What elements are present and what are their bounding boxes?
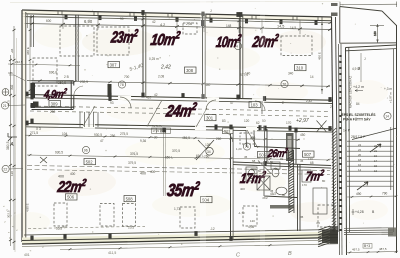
svg-text:-1,73: -1,73 [238, 211, 245, 215]
svg-text:7a 7b 7c: 7a 7b 7c [152, 124, 163, 128]
svg-text:308: 308 [186, 68, 194, 73]
svg-text:2,08: 2,08 [186, 22, 192, 26]
svg-text:497,5: 497,5 [352, 248, 360, 252]
svg-text:450 E: 450 E [318, 52, 322, 60]
svg-text:78: 78 [120, 83, 124, 87]
svg-text:4,80 E: 4,80 E [26, 203, 30, 212]
svg-text:22: 22 [3, 167, 7, 171]
svg-text:14,5: 14,5 [277, 25, 284, 29]
scan fog patches [10, 22, 388, 232]
svg-text:271,5: 271,5 [30, 131, 38, 135]
dark shaft [286, 133, 294, 161]
svg-text:400: 400 [240, 187, 245, 191]
svg-text:X 3: X 3 [36, 127, 41, 131]
partition top dark blob [201, 20, 205, 26]
tower mid dimension line [347, 192, 397, 199]
svg-text:B+3: B+3 [364, 244, 370, 248]
circle cross symbol left [2, 89, 9, 96]
svg-text:696,8: 696,8 [49, 71, 57, 75]
tower bottom band [344, 228, 397, 237]
svg-text:10,5: 10,5 [128, 226, 134, 230]
corridor door gaps [83, 98, 264, 129]
svg-text:14: 14 [358, 168, 362, 172]
svg-text:+30: +30 [152, 136, 158, 140]
svg-text:+,3 m: +,3 m [384, 87, 392, 91]
svg-text:2 B: 2 B [64, 75, 69, 79]
left wall inner dim marks [26, 16, 31, 94]
svg-text:42: 42 [154, 93, 158, 97]
box 503 on corridor wall [223, 128, 234, 134]
svg-text:83: 83 [222, 119, 226, 123]
svg-text:C: C [236, 253, 240, 258]
svg-text:260: 260 [216, 137, 222, 141]
svg-text:379,5: 379,5 [128, 161, 136, 165]
svg-text:456,5: 456,5 [182, 136, 190, 140]
svg-text:14,5: 14,5 [290, 26, 296, 30]
svg-text:307: 307 [110, 62, 118, 67]
shower with cross [257, 176, 270, 190]
circled 34 on X [206, 148, 214, 156]
svg-text:400: 400 [70, 172, 76, 176]
svg-text:-12: -12 [210, 227, 215, 231]
room area labels handwritten [42, 27, 325, 200]
svg-text:E: E [282, 101, 284, 105]
svg-text:18: 18 [358, 158, 362, 162]
top-right annex dimension [340, 2, 397, 43]
svg-text:+4,28: +4,28 [355, 210, 364, 214]
svg-text:506: 506 [67, 195, 75, 200]
corridor vestibule stubs [246, 101, 262, 147]
scan creases [200, 0, 206, 258]
partition wall 10/10 [203, 15, 206, 99]
dimension line second bottom rooms [27, 151, 330, 162]
x cross mark [40, 157, 47, 163]
svg-text:6,90: 6,90 [84, 19, 93, 24]
bath clutter numbers [236, 147, 326, 225]
bottom dimension lines outside [24, 243, 338, 258]
svg-text:507: 507 [304, 152, 312, 157]
svg-text:250,5: 250,5 [58, 81, 66, 85]
svg-text:790: 790 [382, 192, 388, 196]
svg-text:93: 93 [110, 101, 114, 105]
svg-text:14: 14 [310, 75, 314, 79]
section marker A left [8, 133, 17, 148]
top-right annex outline [340, 7, 397, 44]
svg-text:250: 250 [50, 110, 56, 114]
svg-text:80: 80 [322, 179, 326, 183]
svg-text:47: 47 [230, 101, 234, 105]
partition wall 22/35 [164, 131, 166, 196]
svg-text:148: 148 [226, 24, 232, 28]
door arcs corridor [83, 97, 265, 148]
main bottom-right dark corner [322, 226, 338, 244]
svg-text:9,36: 9,36 [140, 139, 146, 143]
corridor lower wall [26, 124, 332, 133]
svg-text:2,42: 2,42 [306, 99, 312, 103]
svg-text:400: 400 [150, 170, 156, 174]
left exterior wall [22, 10, 26, 242]
svg-text:4,08: 4,08 [248, 225, 254, 229]
alcove wall left of 23m2 [76, 15, 78, 81]
right gap verticals upper [338, 60, 340, 130]
furniture dashed rectangles top rooms [33, 23, 312, 86]
alcove pilaster [31, 15, 34, 47]
bathroom dividing walls [233, 129, 331, 231]
4,9m2 dark column [33, 102, 39, 108]
dimension line mid bottom rooms [27, 166, 330, 175]
staircase tower walls [339, 25, 397, 255]
svg-text:376,5: 376,5 [130, 152, 138, 156]
staircase small step numbers [358, 143, 378, 173]
svg-text:232,5: 232,5 [15, 60, 23, 64]
partition wall 35/17 [231, 128, 234, 241]
svg-text:930,5: 930,5 [55, 151, 63, 155]
svg-text:400: 400 [248, 173, 254, 177]
svg-text:103: 103 [251, 102, 259, 107]
svg-text:47: 47 [100, 139, 104, 143]
svg-text:76: 76 [245, 145, 249, 149]
bottom-left margin specks [3, 206, 44, 252]
svg-text:120: 120 [244, 119, 250, 123]
room number boxes [49, 62, 314, 203]
corridor dark bar [108, 84, 112, 97]
svg-text:480: 480 [250, 136, 256, 140]
svg-text:94: 94 [10, 48, 14, 52]
tower rotated side text [348, 76, 353, 108]
svg-text:A: A [9, 142, 14, 148]
svg-text:90: 90 [120, 17, 124, 21]
4,9m2 room door arc [74, 86, 83, 96]
top wall column marks [65, 14, 318, 24]
400 span labels [58, 168, 256, 179]
svg-text:508: 508 [126, 196, 134, 201]
staircase top break diagonal [352, 128, 397, 140]
svg-text:450: 450 [300, 133, 306, 137]
tower small texts [342, 53, 393, 139]
svg-text:502: 502 [86, 159, 94, 164]
svg-text:310: 310 [296, 65, 304, 70]
dark hatched wall band bath [289, 150, 295, 213]
svg-text:490: 490 [356, 192, 362, 196]
left vertical dimension lines [6, 26, 16, 250]
svg-text:170: 170 [286, 121, 292, 125]
sheet edge left faint [15, 38, 17, 252]
right exterior wall [332, 17, 339, 232]
svg-text:600: 600 [46, 19, 52, 23]
svg-text:21: 21 [374, 149, 378, 153]
svg-text:401: 401 [24, 253, 30, 257]
tower bottom dims [346, 244, 398, 254]
right wall hatching [332, 128, 336, 231]
svg-text:275,5: 275,5 [120, 132, 128, 136]
svg-text:650 L: 650 L [165, 156, 173, 160]
svg-text:17: 17 [374, 159, 378, 163]
svg-text:68: 68 [310, 161, 314, 165]
svg-text:3,6: 3,6 [62, 225, 67, 229]
dimension line upper bottom rooms [25, 131, 300, 141]
svg-text:68: 68 [252, 159, 256, 163]
svg-text:360 E: 360 E [26, 47, 30, 55]
svg-text:15: 15 [374, 164, 378, 168]
svg-text:+2,97: +2,97 [296, 118, 309, 124]
bathroom fixtures [240, 133, 327, 214]
svg-text:104: 104 [62, 132, 68, 136]
svg-text:4,9 M: 4,9 M [352, 67, 360, 71]
left leader lines [9, 75, 25, 169]
svg-text:232,5: 232,5 [80, 80, 88, 84]
small schedule table under 24m2 [152, 124, 171, 133]
wall junction columns [25, 10, 331, 241]
svg-text:62: 62 [256, 121, 260, 125]
svg-text:487,5: 487,5 [379, 247, 387, 251]
svg-text:19: 19 [374, 154, 378, 158]
svg-text:28/17,5 P: 28/17,5 P [351, 135, 366, 139]
small room 4,9m2 walls [32, 81, 74, 110]
svg-text:2,42: 2,42 [160, 65, 171, 71]
top wall window jamb ticks [58, 11, 322, 21]
svg-text:ÉPS EL SZIGETELÉS: ÉPS EL SZIGETELÉS [342, 112, 377, 117]
svg-text:1,73: 1,73 [174, 207, 180, 211]
corridor upper wall [26, 95, 332, 104]
partition wall 10/20 [240, 15, 243, 99]
svg-text:877,5: 877,5 [240, 73, 248, 77]
svg-text:14: 14 [385, 114, 389, 118]
svg-text:411,5: 411,5 [108, 251, 116, 255]
corridor louvre strokes [80, 112, 98, 127]
furniture dashed rectangles bottom rooms [54, 203, 335, 228]
svg-text:302: 302 [10, 84, 14, 90]
svg-text:45: 45 [300, 215, 304, 219]
svg-text:45/2: 45/2 [270, 192, 276, 196]
svg-text:2,08: 2,08 [158, 75, 164, 79]
svg-text:42: 42 [152, 20, 156, 24]
svg-text:370,5: 370,5 [172, 149, 180, 153]
svg-text:+2,97 m: +2,97 m [389, 92, 393, 103]
svg-text:400: 400 [140, 172, 146, 176]
svg-text:120: 120 [250, 219, 255, 223]
svg-text:23: 23 [374, 144, 378, 148]
bottom exterior wall band [22, 230, 338, 247]
duct dark bar left [31, 83, 36, 98]
svg-text:302,5: 302,5 [7, 210, 11, 218]
witness stubs from top wall [28, 14, 301, 34]
svg-text:1,20: 1,20 [236, 147, 242, 151]
svg-text:B: B [288, 251, 292, 257]
svg-text:22: 22 [358, 148, 362, 152]
pencil scribbles [129, 63, 309, 124]
svg-text:340: 340 [288, 72, 294, 76]
svg-text:309: 309 [51, 101, 59, 106]
top wall inner sill line [22, 16, 332, 23]
35m2 door X mark [196, 140, 214, 160]
tiny dimension clutter texts [36, 9, 392, 231]
svg-text:16: 16 [358, 163, 362, 167]
dimension line under top rooms [27, 79, 330, 88]
svg-text:96: 96 [84, 148, 88, 152]
gap dimension column between building and tower [318, 20, 324, 94]
svg-text:14 P: 14 P [343, 129, 351, 133]
svg-text:4,2: 4,2 [160, 23, 165, 27]
svg-text:410: 410 [146, 96, 152, 100]
corridor dashed centerlines [30, 106, 330, 117]
staircase steps [347, 141, 394, 186]
svg-text:301: 301 [206, 115, 214, 120]
svg-text:256: 256 [110, 134, 116, 138]
staircase arrows [357, 144, 381, 190]
svg-text:2: 2 [330, 105, 332, 109]
svg-text:PUHA FÜTTY SÁV: PUHA FÜTTY SÁV [343, 117, 371, 122]
svg-text:MAGASF. LÉPCSŐHÁZ: MAGASF. LÉPCSŐHÁZ [348, 76, 353, 108]
4,9m2 room dim line top [8, 60, 80, 67]
svg-text:120: 120 [10, 171, 14, 176]
svg-text:76: 76 [282, 82, 286, 86]
svg-text:0,25 m: 0,25 m [149, 57, 159, 61]
tower lower room label [352, 209, 376, 215]
corridor right door arc [222, 132, 233, 143]
left dim rotated numbers [7, 48, 15, 218]
circled reference numbers [1, 42, 288, 172]
svg-text:13: 13 [374, 169, 378, 173]
corridor door posts [215, 125, 292, 131]
bath horizontal wall [255, 147, 300, 149]
svg-text:M6: M6 [9, 71, 13, 75]
svg-text:20: 20 [358, 153, 362, 157]
svg-text:34: 34 [207, 150, 211, 154]
sheet edge top faint [10, 2, 340, 3]
top dimension line [24, 15, 332, 31]
svg-text:930,5: 930,5 [94, 133, 102, 137]
svg-text:24: 24 [358, 143, 362, 147]
tower left wall ticks [339, 55, 341, 231]
svg-text:700: 700 [124, 75, 130, 79]
main NE corner dark marks [331, 3, 338, 6]
svg-text:+4,2 m: +4,2 m [353, 85, 364, 89]
bottom dashed witness line [28, 226, 145, 228]
svg-text:21: 21 [3, 104, 7, 108]
partition wall 23/10 [143, 13, 146, 97]
corridor right door X mark [317, 121, 327, 133]
top exterior wall [22, 10, 332, 21]
svg-text:84: 84 [356, 102, 360, 106]
svg-text:140: 140 [373, 31, 377, 36]
